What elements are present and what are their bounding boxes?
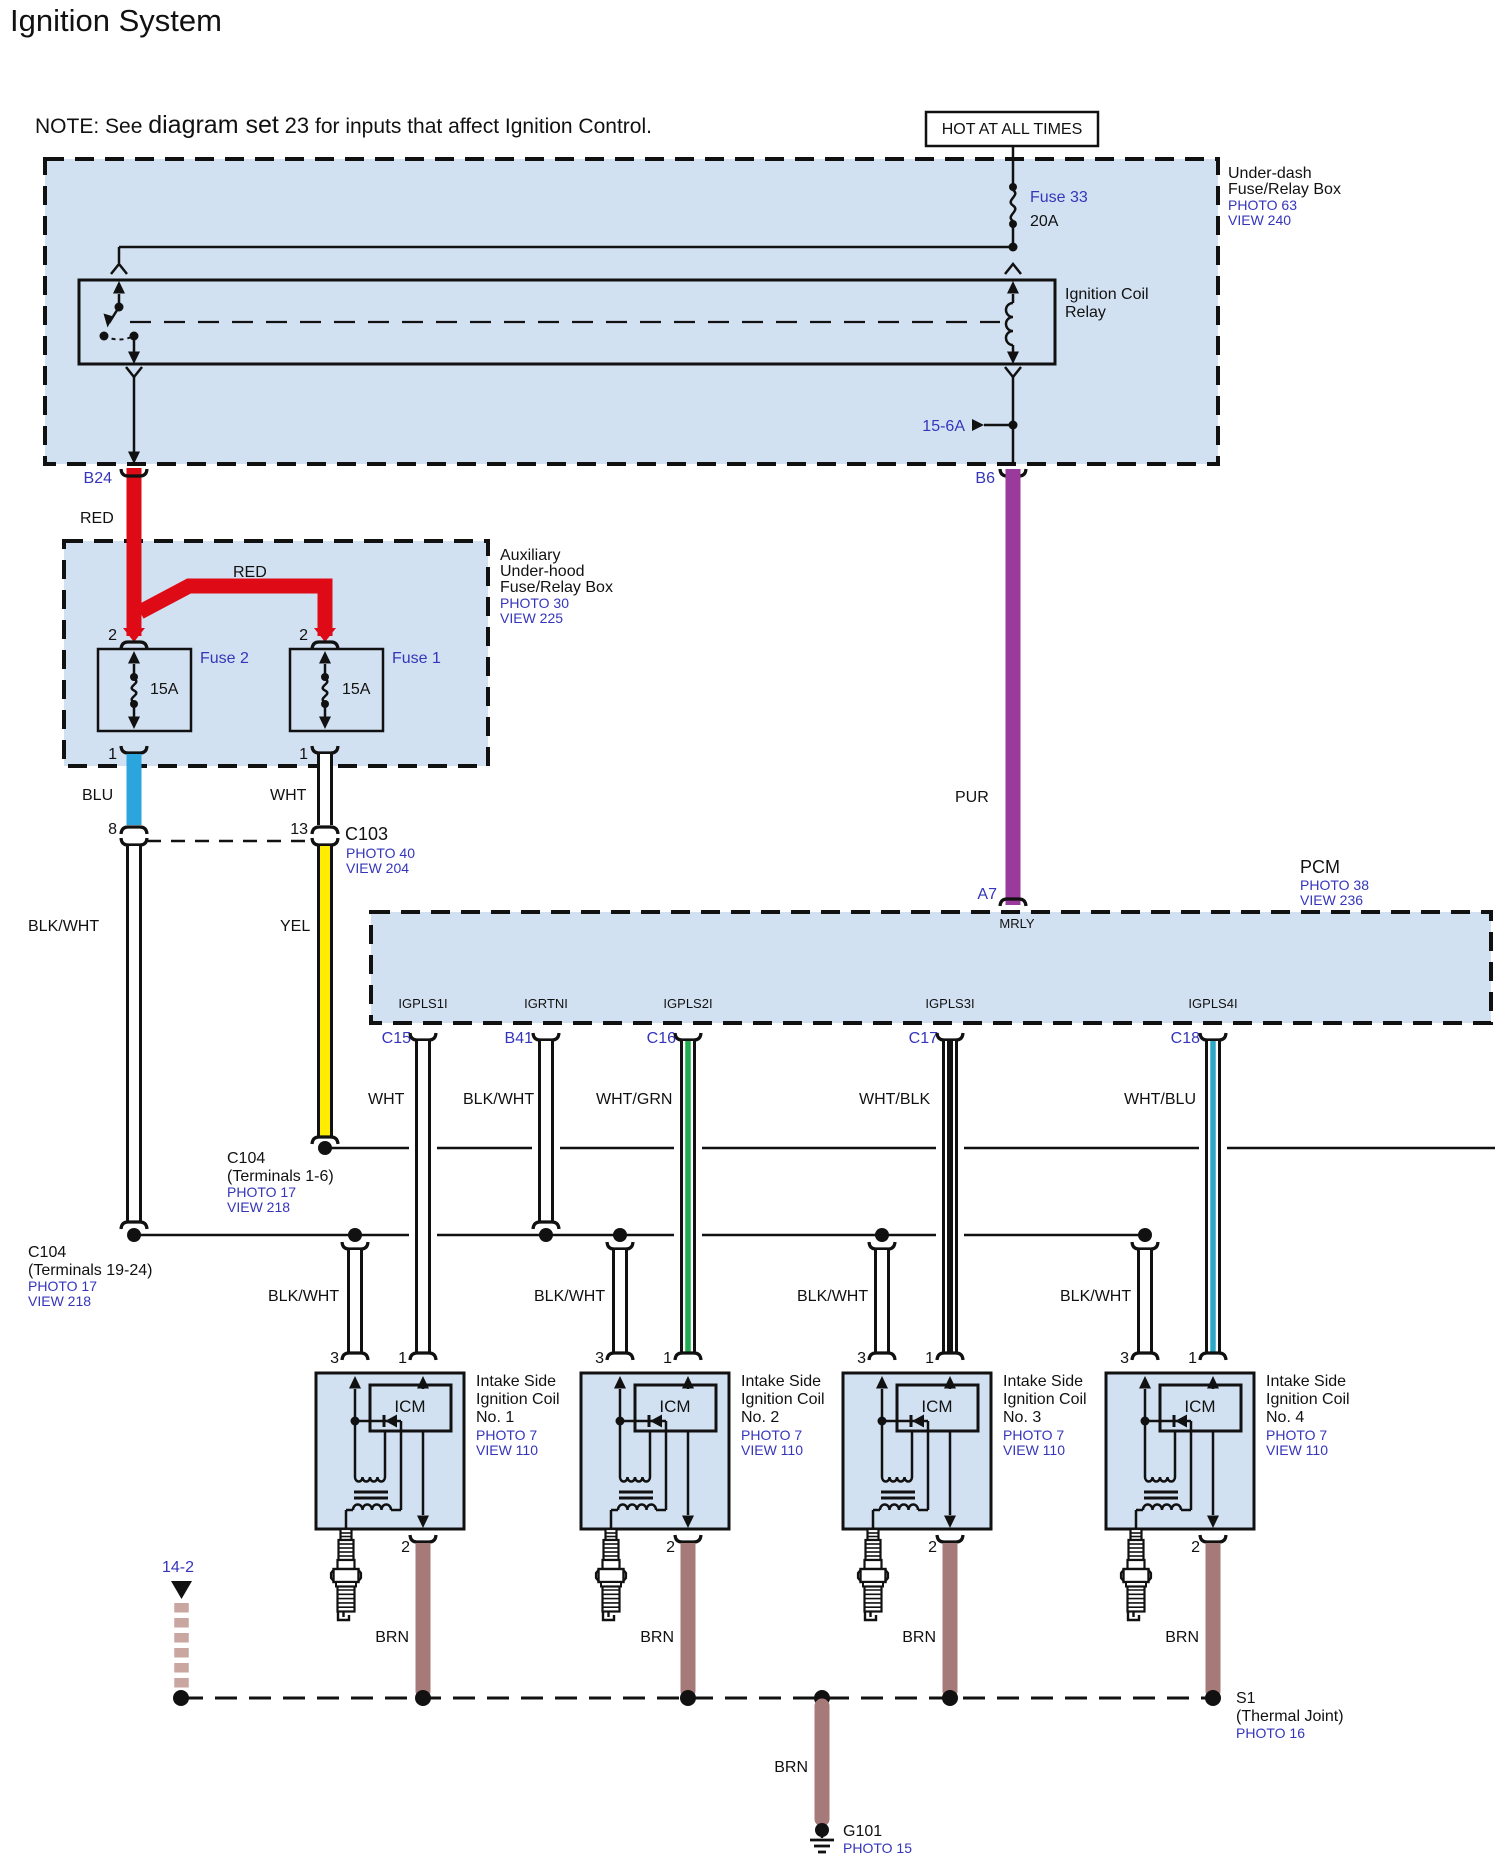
primary winding coil 3 xyxy=(880,1505,918,1510)
node: ground bus drop to coil 1 pin 3 xyxy=(348,1228,362,1242)
svg-text:Ignition Coil: Ignition Coil xyxy=(1065,286,1149,303)
svg-text:2: 2 xyxy=(401,1539,410,1556)
pin 2 connector coil 1 xyxy=(410,1535,436,1542)
wire WHT/BLK C17 to coil 3 xyxy=(942,1041,958,1352)
wire: diode to primary winding coil 2 xyxy=(665,1421,668,1510)
svg-text:PHOTO 63: PHOTO 63 xyxy=(1228,197,1297,213)
ignition coil unit: Intake Side Ignition Coil No. 2 xyxy=(581,1373,729,1529)
svg-text:Auxiliary: Auxiliary xyxy=(500,547,560,564)
coil 1 pin 2 lead xyxy=(422,1431,425,1515)
svg-text:C104: C104 xyxy=(227,1150,265,1167)
svg-text:Under-dash: Under-dash xyxy=(1228,165,1312,182)
wire WHT/BLU C18 to coil 4 xyxy=(1205,1041,1221,1352)
svg-text:ICM: ICM xyxy=(659,1397,690,1416)
wire: C104 terminals 1-6 ground return line xyxy=(325,1147,409,1150)
ICM module coil 1 xyxy=(370,1385,451,1431)
svg-text:Ignition Coil: Ignition Coil xyxy=(476,1391,560,1408)
node on S1 bus at x=822 xyxy=(814,1690,830,1706)
svg-text:C18: C18 xyxy=(1171,1030,1200,1047)
svg-text:Ignition Coil: Ignition Coil xyxy=(1266,1391,1350,1408)
svg-text:PHOTO 38: PHOTO 38 xyxy=(1300,877,1369,893)
pin 2 connector coil 4 xyxy=(1200,1535,1226,1542)
wire BLK/WHT to coil 1 pin 3 xyxy=(347,1250,363,1352)
svg-text:2: 2 xyxy=(1191,1539,1200,1556)
svg-text:2: 2 xyxy=(666,1539,675,1556)
wire BRN coil 4 to S1 xyxy=(1206,1543,1221,1691)
wire WHT C15 to coil 1 xyxy=(415,1041,431,1352)
svg-text:1: 1 xyxy=(663,1350,672,1367)
svg-text:WHT/BLK: WHT/BLK xyxy=(859,1091,930,1108)
svg-text:MRLY: MRLY xyxy=(999,916,1034,931)
svg-text:VIEW 218: VIEW 218 xyxy=(28,1293,91,1309)
wire: diode to primary winding coil 1 xyxy=(400,1421,403,1510)
spark plug coil 1 xyxy=(331,1529,361,1620)
svg-text:ICM: ICM xyxy=(921,1397,952,1416)
svg-text:PHOTO 40: PHOTO 40 xyxy=(346,845,415,861)
node on S1 bus at x=688 xyxy=(680,1690,696,1706)
svg-text:Fuse/Relay Box: Fuse/Relay Box xyxy=(1228,181,1341,198)
node: fuse33 / relay switch feed junction xyxy=(1009,243,1018,252)
svg-text:IGPLS3I: IGPLS3I xyxy=(925,996,974,1011)
spark plug coil 4 xyxy=(1121,1529,1151,1620)
fuse F1 15A box xyxy=(290,649,383,731)
transformer core coil 1 xyxy=(354,1491,388,1494)
node 15-6A branch xyxy=(1009,421,1018,430)
coil 4 pin 1 lead xyxy=(1207,1376,1219,1389)
wire BLU from fuse 2 xyxy=(127,754,142,825)
node: BLK/WHT joins bus xyxy=(121,1222,147,1229)
wire RED from B24 to fuse 2 pin 2 xyxy=(127,468,142,636)
fuse F2 15A box xyxy=(98,649,191,731)
svg-text:BRN: BRN xyxy=(902,1629,936,1646)
svg-text:1: 1 xyxy=(1188,1350,1197,1367)
svg-text:8: 8 xyxy=(108,821,117,838)
svg-text:WHT: WHT xyxy=(270,787,307,804)
svg-text:C15: C15 xyxy=(382,1030,411,1047)
svg-text:BLK/WHT: BLK/WHT xyxy=(797,1288,868,1305)
svg-text:BLU: BLU xyxy=(82,787,113,804)
wire: relay switch output to B24 xyxy=(126,367,142,377)
svg-text:G101: G101 xyxy=(843,1823,882,1840)
svg-text:Ignition Coil: Ignition Coil xyxy=(1003,1391,1087,1408)
svg-text:C103: C103 xyxy=(345,824,388,844)
wire: relay coil to B6 xyxy=(1005,367,1021,377)
svg-text:PHOTO 7: PHOTO 7 xyxy=(1266,1427,1327,1443)
wire BLK/WHT from C103 terminal 8 xyxy=(126,846,142,1221)
svg-text:1: 1 xyxy=(108,746,117,763)
svg-text:PHOTO 16: PHOTO 16 xyxy=(1236,1725,1305,1741)
relay: Ignition Coil Relay box xyxy=(79,280,1055,364)
wire BRN coil 3 to S1 xyxy=(943,1543,958,1691)
svg-text:Fuse/Relay Box: Fuse/Relay Box xyxy=(500,579,613,596)
svg-text:ICM: ICM xyxy=(394,1397,425,1416)
svg-text:IGPLS4I: IGPLS4I xyxy=(1188,996,1237,1011)
svg-text:1: 1 xyxy=(925,1350,934,1367)
svg-text:NOTE: See diagram set 23 for i: NOTE: See diagram set 23 for inputs that… xyxy=(35,111,652,139)
svg-text:3: 3 xyxy=(857,1350,866,1367)
svg-text:No. 3: No. 3 xyxy=(1003,1409,1041,1426)
secondary winding coil 2 xyxy=(619,1421,622,1477)
wire BRN coil 1 to S1 xyxy=(416,1543,431,1691)
node on S1 bus at x=423 xyxy=(415,1690,431,1706)
svg-text:BLK/WHT: BLK/WHT xyxy=(28,918,99,935)
svg-text:2: 2 xyxy=(108,627,117,644)
svg-text:BLK/WHT: BLK/WHT xyxy=(268,1288,339,1305)
wire PUR from B6 to A7 xyxy=(1006,469,1021,905)
pin 2 connector coil 2 xyxy=(675,1535,701,1542)
svg-text:BRN: BRN xyxy=(1165,1629,1199,1646)
coil 2 pin 2 lead xyxy=(687,1431,690,1515)
svg-text:20A: 20A xyxy=(1030,213,1059,230)
coil 1 pin 3 lead xyxy=(349,1376,361,1389)
fuse F33 20A xyxy=(1009,183,1017,191)
ignition coil unit: Intake Side Ignition Coil No. 1 xyxy=(316,1373,464,1529)
wire: C104 terminals 19-24 ground bus xyxy=(134,1234,409,1237)
node on S1 bus at x=181 xyxy=(173,1690,189,1706)
svg-text:VIEW 225: VIEW 225 xyxy=(500,610,563,626)
ignition coil unit: Intake Side Ignition Coil No. 4 xyxy=(1106,1373,1254,1529)
coil 3 pin 3 lead xyxy=(876,1376,888,1389)
svg-text:3: 3 xyxy=(1120,1350,1129,1367)
ICM module coil 4 xyxy=(1160,1385,1241,1431)
svg-text:RED: RED xyxy=(80,510,114,527)
auxiliary under-hood fuse/relay box xyxy=(64,541,488,766)
svg-text:B6: B6 xyxy=(975,470,995,487)
primary winding coil 4 xyxy=(1143,1505,1181,1510)
relay switch contact xyxy=(113,281,125,294)
coil 4 pin 2 lead xyxy=(1212,1431,1215,1515)
wire: fuse 33 to relay switch (horizontal) xyxy=(119,246,1013,249)
svg-text:(Terminals 19-24): (Terminals 19-24) xyxy=(28,1262,152,1279)
primary winding coil 1 xyxy=(353,1505,391,1510)
coil 2 pin 3 lead xyxy=(614,1376,626,1389)
svg-text:14-2: 14-2 xyxy=(162,1559,194,1576)
wire: down to relay switch contact xyxy=(118,247,121,263)
svg-text:PHOTO 7: PHOTO 7 xyxy=(1003,1427,1064,1443)
svg-text:No. 2: No. 2 xyxy=(741,1409,779,1426)
relay coil element xyxy=(1005,264,1021,274)
coil 3 pin 1 lead xyxy=(944,1376,956,1389)
ICM module coil 3 xyxy=(897,1385,978,1431)
wire BLK/WHT to coil 4 pin 3 xyxy=(1137,1250,1153,1352)
wire BLK/WHT to coil 3 pin 3 xyxy=(874,1250,890,1352)
wire WHT from fuse 1 xyxy=(317,754,333,825)
svg-text:(Thermal Joint): (Thermal Joint) xyxy=(1236,1708,1344,1725)
svg-text:PHOTO 7: PHOTO 7 xyxy=(741,1427,802,1443)
wire YEL from C103 terminal 13 xyxy=(317,846,333,1136)
svg-text:Relay: Relay xyxy=(1065,304,1106,321)
svg-text:B24: B24 xyxy=(84,470,113,487)
svg-text:VIEW 110: VIEW 110 xyxy=(476,1442,538,1458)
svg-text:Intake Side: Intake Side xyxy=(741,1373,821,1390)
svg-text:Fuse 2: Fuse 2 xyxy=(200,650,249,667)
ground G101 xyxy=(815,1823,829,1837)
svg-text:VIEW 110: VIEW 110 xyxy=(1003,1442,1065,1458)
relay internal dashed link xyxy=(130,321,1000,323)
svg-text:2: 2 xyxy=(928,1539,937,1556)
spark plug coil 3 xyxy=(858,1529,888,1620)
svg-text:(Terminals 1-6): (Terminals 1-6) xyxy=(227,1168,334,1185)
svg-text:Intake Side: Intake Side xyxy=(476,1373,556,1390)
node: ground bus drop to coil 2 pin 3 xyxy=(613,1228,627,1242)
svg-text:PHOTO 15: PHOTO 15 xyxy=(843,1840,912,1856)
PCM box xyxy=(371,912,1491,1023)
svg-text:PHOTO 7: PHOTO 7 xyxy=(476,1427,537,1443)
svg-text:C16: C16 xyxy=(647,1030,676,1047)
svg-text:PHOTO 17: PHOTO 17 xyxy=(28,1278,97,1294)
svg-text:A7: A7 xyxy=(977,886,997,903)
svg-text:BLK/WHT: BLK/WHT xyxy=(534,1288,605,1305)
node on S1 bus at x=1213 xyxy=(1205,1690,1221,1706)
svg-text:WHT: WHT xyxy=(368,1091,405,1108)
svg-text:PCM: PCM xyxy=(1300,857,1340,877)
svg-text:Fuse 1: Fuse 1 xyxy=(392,650,441,667)
ICM module coil 2 xyxy=(635,1385,716,1431)
svg-text:No. 4: No. 4 xyxy=(1266,1409,1304,1426)
svg-text:2: 2 xyxy=(299,627,308,644)
svg-text:Ignition Coil: Ignition Coil xyxy=(741,1391,825,1408)
coil 3 pin 2 lead xyxy=(949,1431,952,1515)
coil 1 pin 1 lead xyxy=(417,1376,429,1389)
svg-text:C17: C17 xyxy=(909,1030,938,1047)
svg-text:15A: 15A xyxy=(150,681,179,698)
transformer core coil 2 xyxy=(619,1491,653,1494)
secondary winding coil 4 xyxy=(1144,1421,1147,1477)
svg-text:YEL: YEL xyxy=(280,918,310,935)
pin 2 connector coil 3 xyxy=(937,1535,963,1542)
svg-text:No. 1: No. 1 xyxy=(476,1409,514,1426)
svg-text:1: 1 xyxy=(299,746,308,763)
svg-text:WHT/GRN: WHT/GRN xyxy=(596,1091,672,1108)
diode coil 2 xyxy=(620,1420,666,1423)
svg-text:BLK/WHT: BLK/WHT xyxy=(463,1091,534,1108)
node: ground bus drop to coil 4 pin 3 xyxy=(1138,1228,1152,1242)
wire BLK/WHT B41 to ground bus xyxy=(538,1041,554,1221)
wire: diode to primary winding coil 4 xyxy=(1190,1421,1193,1510)
diode coil 3 xyxy=(882,1420,928,1423)
wire: battery feed into fuse 33 xyxy=(1012,146,1015,186)
svg-text:C104: C104 xyxy=(28,1244,66,1261)
svg-text:BLK/WHT: BLK/WHT xyxy=(1060,1288,1131,1305)
node: ground bus drop to coil 3 pin 3 xyxy=(875,1228,889,1242)
node: coil 3 diode/secondary junction xyxy=(878,1417,887,1426)
spark plug coil 2 xyxy=(596,1529,626,1620)
diode coil 1 xyxy=(355,1420,401,1423)
node: coil 2 diode/secondary junction xyxy=(616,1417,625,1426)
svg-text:15-6A: 15-6A xyxy=(922,418,965,435)
svg-text:IGPLS2I: IGPLS2I xyxy=(663,996,712,1011)
svg-text:ICM: ICM xyxy=(1184,1397,1215,1416)
transformer core coil 4 xyxy=(1144,1491,1178,1494)
svg-text:3: 3 xyxy=(595,1350,604,1367)
under-dash fuse/relay box xyxy=(45,159,1218,464)
svg-text:13: 13 xyxy=(290,821,308,838)
node on S1 bus at x=950 xyxy=(942,1690,958,1706)
svg-text:VIEW 204: VIEW 204 xyxy=(346,860,409,876)
svg-text:RED: RED xyxy=(233,564,267,581)
wire RED branch to fuse 1 pin 2 xyxy=(140,586,325,636)
svg-text:B41: B41 xyxy=(505,1030,534,1047)
svg-text:BRN: BRN xyxy=(375,1629,409,1646)
wire BLK/WHT to coil 2 pin 3 xyxy=(612,1250,628,1352)
svg-text:PHOTO 17: PHOTO 17 xyxy=(227,1184,296,1200)
wire BRN to G101 xyxy=(815,1706,830,1819)
svg-text:3: 3 xyxy=(330,1350,339,1367)
HOT AT ALL TIMES tag xyxy=(926,112,1098,146)
wire: diode to primary winding coil 3 xyxy=(927,1421,930,1510)
svg-text:Ignition System: Ignition System xyxy=(10,3,222,38)
svg-text:Under-hood: Under-hood xyxy=(500,563,585,580)
wire WHT/GRN C16 to coil 2 xyxy=(680,1041,696,1352)
svg-text:S1: S1 xyxy=(1236,1690,1256,1707)
transformer core coil 3 xyxy=(881,1491,915,1494)
svg-text:IGRTNI: IGRTNI xyxy=(524,996,568,1011)
secondary winding coil 1 xyxy=(354,1421,357,1477)
svg-text:Fuse 33: Fuse 33 xyxy=(1030,189,1088,206)
ignition coil unit: Intake Side Ignition Coil No. 3 xyxy=(843,1373,991,1529)
svg-text:VIEW 236: VIEW 236 xyxy=(1300,892,1363,908)
svg-text:PHOTO 30: PHOTO 30 xyxy=(500,595,569,611)
svg-text:VIEW 240: VIEW 240 xyxy=(1228,212,1291,228)
primary winding coil 2 xyxy=(618,1505,656,1510)
wire BRN coil 2 to S1 xyxy=(681,1543,696,1691)
diode coil 4 xyxy=(1145,1420,1191,1423)
svg-text:IGPLS1I: IGPLS1I xyxy=(398,996,447,1011)
wire: S1 thermal joint splice bus xyxy=(181,1697,1213,1700)
svg-text:WHT/BLU: WHT/BLU xyxy=(1124,1091,1196,1108)
svg-text:15A: 15A xyxy=(342,681,371,698)
node: YEL joins C104(1-6) line xyxy=(318,1141,332,1155)
svg-text:HOT AT ALL TIMES: HOT AT ALL TIMES xyxy=(942,121,1083,138)
coil 4 pin 3 lead xyxy=(1139,1376,1151,1389)
svg-text:VIEW 110: VIEW 110 xyxy=(741,1442,803,1458)
node: coil 4 diode/secondary junction xyxy=(1141,1417,1150,1426)
svg-text:BRN: BRN xyxy=(774,1759,808,1776)
svg-text:BRN: BRN xyxy=(640,1629,674,1646)
svg-text:VIEW 218: VIEW 218 xyxy=(227,1199,290,1215)
connector C103 dashed link xyxy=(147,840,312,843)
svg-text:VIEW 110: VIEW 110 xyxy=(1266,1442,1328,1458)
svg-text:1: 1 xyxy=(398,1350,407,1367)
svg-text:Intake Side: Intake Side xyxy=(1003,1373,1083,1390)
svg-text:Intake Side: Intake Side xyxy=(1266,1373,1346,1390)
node: coil 1 diode/secondary junction xyxy=(351,1417,360,1426)
svg-text:PUR: PUR xyxy=(955,789,989,806)
secondary winding coil 3 xyxy=(881,1421,884,1477)
coil 2 pin 1 lead xyxy=(682,1376,694,1389)
